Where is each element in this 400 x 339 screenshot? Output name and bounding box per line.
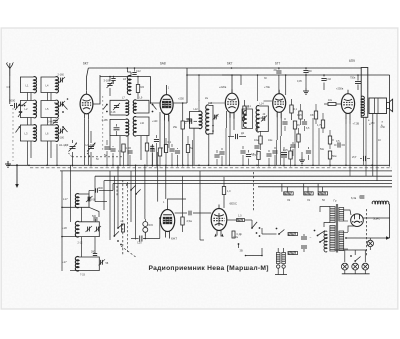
label 150: [371, 122, 376, 125]
wire rect top: [344, 210, 355, 249]
wire stub x319: [318, 128, 320, 165]
wire lamps frame: [345, 250, 366, 262]
svg-text:L6: L6: [123, 77, 127, 81]
svg-text:С20: С20: [137, 242, 142, 245]
svg-text:0,02: 0,02: [326, 78, 331, 81]
label 6Е5С V7: [230, 202, 238, 206]
tank 3 loop: [70, 257, 99, 271]
label 2,2м: [233, 236, 238, 239]
ground mid: [299, 152, 305, 163]
svg-text:4300: 4300: [98, 187, 104, 190]
osc tank L8: [102, 119, 129, 136]
svg-text:750в: 750в: [350, 77, 356, 80]
svg-text:+220в: +220в: [219, 85, 227, 89]
tube V1 6К7: [80, 90, 93, 120]
label И.Р: [352, 155, 370, 161]
capacitor bus f: [240, 146, 245, 165]
resistor R2: [136, 77, 144, 100]
capacitor 500: [92, 215, 98, 222]
svg-text:6Ж7: 6Ж7: [171, 237, 177, 241]
capacitor row l: [154, 135, 159, 167]
svg-text:3-18: 3-18: [111, 111, 116, 114]
wire IF2 drop: [257, 122, 259, 131]
bus line 3: [104, 180, 392, 182]
resistor R17 dark: [232, 231, 243, 238]
switch link dashed: [122, 180, 124, 256]
wire right edge: [389, 75, 391, 167]
svg-text:+250в: +250в: [336, 87, 344, 91]
wire osc top y76.5: [100, 76, 151, 78]
capacitor C13: [185, 119, 197, 124]
tank L3: [20, 125, 36, 142]
label 6Ж7 V6: [171, 237, 177, 241]
resistor x323: [317, 113, 325, 133]
ground arrow left: [15, 164, 19, 188]
resistor grid V5: [324, 99, 341, 106]
label +120в: [152, 120, 158, 123]
trimmer 41-180: [57, 128, 66, 140]
bus line 4: [113, 183, 392, 185]
capacitor 4300: [89, 187, 113, 194]
svg-text:6Г7: 6Г7: [275, 62, 280, 66]
svg-text:+250: +250: [178, 97, 184, 101]
switch dots osc right: [152, 104, 157, 113]
resistor right V4 a: [290, 99, 298, 120]
capacitor bus g: [246, 150, 251, 165]
wire V1 cathode: [85, 119, 89, 165]
bus line b: [60, 170, 392, 172]
label Гр: [334, 199, 337, 203]
resistor 1,0 right V7: [227, 215, 252, 222]
svg-text:1,0: 1,0: [227, 190, 231, 193]
top line dots: [109, 67, 325, 77]
svg-text:5м: 5м: [104, 154, 107, 157]
wire tank links c1: [28, 93, 32, 126]
coil L18: [62, 221, 79, 237]
wire V4 pins: [277, 112, 281, 140]
svg-text:L17: L17: [63, 197, 68, 201]
tap winding left: [324, 231, 327, 252]
svg-text:L13: L13: [208, 102, 213, 105]
antenna W1: [6, 62, 13, 76]
capacitor mains a: [301, 234, 307, 239]
svg-text:6К7: 6К7: [83, 62, 89, 66]
switch link diag dashed: [121, 246, 137, 258]
svg-text:2м: 2м: [205, 97, 208, 100]
svg-text:3-185: 3-185: [102, 119, 109, 122]
dashed switch link left: [12, 108, 14, 161]
svg-text:6П9: 6П9: [349, 59, 355, 63]
label 1,0 b: [118, 150, 122, 153]
wire sw vert f: [144, 165, 146, 219]
svg-text:Н1-4ДФ: Н1-4ДФ: [59, 143, 68, 147]
title text: [149, 265, 269, 272]
label 7-33: [80, 274, 85, 277]
svg-text:260: 260: [91, 251, 96, 254]
svg-text:L18: L18: [62, 226, 67, 230]
wire osc drops: [110, 136, 141, 166]
label 6,3в: [351, 196, 364, 200]
svg-text:6,3в: 6,3в: [351, 196, 357, 200]
svg-text:41-180: 41-180: [57, 137, 65, 140]
wire drop h4: [307, 187, 309, 192]
resistor R5 right V3: [243, 100, 246, 120]
rectifier V8 5Ц4С: [351, 214, 364, 227]
label 2-12: [78, 242, 83, 245]
capacitor osc1 low: [114, 124, 120, 136]
osc tank L7: [110, 97, 129, 116]
svg-text:0,5: 0,5: [336, 140, 340, 143]
wire tank drops: [28, 141, 58, 165]
wire drop x200: [200, 171, 204, 240]
trimmer 3-180: [104, 77, 114, 97]
coil L6 osc: [123, 68, 131, 94]
wire V1 cathode drop: [84, 144, 86, 165]
capacitor bus e: [219, 148, 224, 165]
resistor x330b: [328, 151, 336, 167]
resistor x316: [310, 104, 318, 124]
label 10 right: [378, 139, 381, 142]
label а2: [382, 121, 384, 124]
wire V6 top: [163, 199, 186, 206]
capacitor V4 d: [290, 142, 295, 156]
label 0,5д: [215, 115, 219, 118]
label 6К7 V1: [83, 62, 89, 66]
svg-text:5Ц4С: 5Ц4С: [373, 217, 380, 221]
resistor mains dark 2: [288, 251, 298, 254]
capacitor row i: [175, 148, 180, 167]
capacitor row h: [168, 141, 175, 167]
resistor row k: [186, 136, 193, 167]
label НЧ: [54, 102, 58, 105]
wire row n: [192, 140, 194, 167]
wire 4300 drop: [113, 184, 117, 197]
resistor 0,5: [253, 152, 261, 167]
label 0,5 c: [251, 153, 255, 156]
svg-text:3В: 3В: [240, 249, 243, 253]
resistor right V4 c: [297, 128, 300, 148]
wire sw vert d: [130, 171, 132, 222]
resistor 2,5м: [181, 176, 192, 232]
wire IF1 riser: [198, 74, 200, 100]
wire V1 grid cap: [87, 68, 89, 90]
trimmer mid col2: [59, 101, 66, 107]
capacitor C20 top: [274, 67, 282, 94]
label 5Ц4С: [373, 217, 380, 221]
svg-text:С50: С50: [381, 126, 386, 129]
output transformer T2: [345, 68, 368, 177]
resistor x330a: [328, 130, 334, 149]
svg-text:7-33: 7-33: [80, 274, 85, 277]
wire drop x62: [61, 171, 63, 271]
label 40: [263, 113, 266, 116]
svg-text:2-160: 2-160: [58, 74, 65, 77]
resistor IF2 low: [254, 131, 262, 150]
tube V7 6Е5С: [211, 205, 227, 237]
svg-text:Гр: Гр: [334, 199, 337, 203]
svg-text:6К7: 6К7: [227, 62, 233, 66]
svg-text:R2: R2: [141, 85, 145, 89]
tube V5 6П9: [341, 90, 354, 120]
tank L5: [41, 100, 58, 118]
coil L15 box: [242, 106, 253, 129]
svg-text:С50: С50: [310, 114, 315, 117]
wire V1 plate: [93, 75, 100, 104]
wire transformer top: [320, 207, 330, 228]
wire V2 left: [150, 77, 160, 104]
filament wire arrow: [345, 236, 390, 239]
label 30: [264, 77, 267, 80]
wire sw vert e: [135, 165, 137, 239]
bus line 2: [95, 175, 392, 177]
capacitor C11: [111, 77, 115, 85]
dashed link V7: [253, 172, 255, 212]
wire IF1 drops: [194, 100, 209, 165]
capacitor x339: [334, 140, 345, 148]
wire drop h5: [317, 184, 319, 192]
wire stub x346: [345, 124, 347, 165]
label 10м2: [268, 139, 273, 142]
label С50 right: [381, 126, 386, 129]
switch mains: [276, 228, 285, 235]
label +70в: [264, 85, 270, 89]
pilot lamp Л4: [341, 263, 348, 270]
switch contacts left edge: [15, 104, 20, 133]
resistor row j: [162, 138, 168, 167]
resistor sw dark: [121, 221, 125, 232]
wire stub x313: [312, 118, 314, 165]
wire tank1 down: [82, 207, 100, 222]
capacitor mid e: [306, 147, 311, 160]
wire V2 plate right: [173, 102, 187, 104]
svg-text:100: 100: [308, 70, 313, 73]
svg-text:R15: R15: [149, 224, 154, 227]
svg-text:Д1: Д1: [241, 131, 245, 135]
power plug X1: [275, 248, 287, 275]
tank 1 loop: [61, 194, 89, 208]
svg-text:1,0: 1,0: [238, 215, 242, 218]
svg-text:2,5м: 2,5м: [187, 219, 193, 223]
wire antenna down: [7, 76, 11, 104]
svg-text:L12: L12: [194, 108, 199, 111]
wire rect right: [363, 204, 390, 238]
svg-text:L14: L14: [260, 103, 265, 106]
tank L2: [20, 100, 36, 118]
capacitor 0,05 top: [303, 67, 312, 94]
ground left edge: [5, 161, 11, 167]
wire lamps bottom: [342, 270, 370, 274]
svg-text:100: 100: [259, 117, 264, 120]
capacitor x304 mid: [297, 114, 307, 131]
tank 2 loop: [61, 222, 99, 238]
switch contacts mid: [62, 98, 68, 132]
wire IF2 riser: [257, 74, 259, 101]
svg-text:10м: 10м: [254, 139, 259, 142]
tank L6b: [41, 125, 58, 142]
svg-text:2-12: 2-12: [78, 242, 83, 245]
speaker Гр1: [369, 98, 393, 114]
jack R15: [143, 219, 154, 236]
resistor 50 feed: [318, 192, 328, 202]
wire grid bus y68: [88, 67, 345, 69]
switch link dashed 2: [127, 182, 129, 252]
wire mains connect: [262, 228, 277, 234]
trimmer 3-60: [48, 118, 59, 124]
resistor above V7: [222, 177, 231, 208]
capacitor mid b: [272, 147, 277, 167]
resistor mains dark 1: [288, 232, 298, 235]
svg-text:С15: С15: [297, 114, 302, 117]
osc tank L10: [133, 117, 149, 136]
resistor right V4 b: [293, 121, 296, 140]
coil L19: [62, 257, 79, 271]
wire V3 grid link: [209, 102, 225, 104]
coil L17: [63, 194, 79, 208]
tank L1: [20, 77, 36, 93]
resistor R3 below V2: [178, 97, 184, 167]
resistor row e: [145, 135, 148, 167]
label 0,1 V3: [248, 105, 252, 108]
switch wipers bottom: [113, 224, 122, 245]
resistor mid d: [289, 147, 292, 167]
wire V3 pins: [227, 111, 235, 136]
switch V7 right: [251, 220, 260, 237]
capacitor bus d: [214, 150, 219, 165]
svg-text:2,2м: 2,2м: [233, 236, 238, 239]
label 6К7 V3: [227, 62, 233, 66]
IF1 tank L12: [189, 108, 202, 129]
label 100: [259, 117, 264, 120]
svg-text:5000: 5000: [9, 99, 16, 103]
switch wiper input: [18, 102, 27, 117]
switch wipers top: [126, 184, 140, 195]
label R9: [297, 124, 301, 127]
wire stub x350: [349, 124, 351, 176]
svg-text:5м: 5м: [190, 147, 193, 150]
resistor Л2 feed: [284, 192, 294, 202]
label 6,5: [306, 127, 310, 130]
wire sw vert c: [117, 165, 119, 228]
trimmer osc1: [111, 103, 121, 114]
tank L4: [41, 77, 58, 93]
pilot lamp Л6: [362, 263, 369, 270]
wire V2 pins: [160, 112, 169, 152]
wire antenna tap: [15, 105, 25, 107]
primary winding lower: [330, 226, 335, 252]
IF1 tank L13: [206, 102, 214, 134]
label 0,05: [297, 80, 302, 83]
secondary winding lower: [339, 231, 344, 251]
power transformer core: [336, 204, 337, 253]
svg-text:6А8: 6А8: [160, 62, 166, 66]
svg-text:L17: L17: [62, 260, 67, 264]
wire drop h3: [303, 184, 305, 192]
wire tank2 down: [82, 237, 96, 257]
wire drop h6: [322, 187, 324, 192]
dashed link lamps: [366, 209, 368, 257]
wire V4 drops: [277, 136, 281, 165]
tube V3 6К7: [225, 89, 238, 119]
trimmer 3-58: [86, 196, 96, 202]
trimmer tank2b: [95, 226, 102, 232]
wire V5 pins: [346, 118, 359, 126]
svg-text:50м: 50м: [332, 155, 337, 158]
capacitor row f: [150, 144, 155, 167]
primary winding upper: [330, 207, 335, 223]
svg-text:0,25: 0,25: [283, 149, 288, 152]
wire lamp row top: [335, 249, 367, 251]
capacitor above V5: [350, 74, 361, 90]
capacitor row d: [127, 147, 132, 167]
svg-text:R: R: [332, 139, 334, 142]
svg-text:0,1: 0,1: [168, 141, 172, 144]
wire V2 grid cap: [167, 85, 170, 91]
svg-text:И,Р: И,Р: [352, 155, 357, 159]
wire row m: [150, 145, 154, 167]
bus junction dots: [28, 165, 373, 167]
pilot lamp Л5: [352, 263, 359, 270]
svg-text:C1: C1: [7, 85, 11, 89]
bus dashed: [30, 167, 392, 169]
label 50в: [320, 148, 325, 151]
capacitor row a: [104, 140, 109, 167]
wire sw vert a: [109, 171, 111, 240]
wire speaker drops: [369, 114, 383, 181]
label 5000b: [96, 158, 99, 161]
trimmer IF2: [261, 116, 267, 122]
resistor row g: [158, 146, 161, 167]
gang link dashed: [69, 153, 123, 157]
wire V3 top loop: [222, 74, 241, 93]
wire sw vert h: [165, 165, 167, 199]
wire drop h2: [286, 187, 288, 192]
capacitor mid a: [266, 150, 271, 167]
wire tank links c2: [48, 93, 52, 126]
capacitor mains b: [301, 246, 307, 252]
wire bottom link: [245, 248, 263, 256]
svg-text:~: ~: [310, 236, 312, 240]
label 2м: [205, 97, 208, 100]
label +250в V5: [336, 87, 344, 91]
svg-text:+120: +120: [152, 120, 158, 123]
voltage selector switches: [310, 230, 328, 243]
svg-text:+70в: +70в: [264, 85, 270, 89]
wire drop h1: [281, 184, 283, 192]
label С14: [186, 118, 191, 121]
trimmer tank2a: [86, 226, 93, 232]
capacitor IF2 low: [254, 146, 259, 155]
variable capacitor C2b: [86, 131, 96, 167]
svg-text:Радиоприемник Нева [Маршал-М]: Радиоприемник Нева [Маршал-М]: [149, 265, 269, 272]
resistor Л1 feed: [304, 192, 314, 202]
svg-text:НЧ: НЧ: [54, 102, 58, 105]
wire drop x70: [70, 165, 72, 222]
resistor x300: [299, 104, 302, 125]
svg-text:150: 150: [371, 122, 376, 125]
switch link osc dashed: [102, 96, 104, 150]
svg-text:1,0: 1,0: [126, 147, 130, 150]
secondary winding upper: [339, 208, 344, 222]
capacitor IF1a: [185, 119, 192, 125]
label 6П9 V5: [349, 59, 355, 63]
svg-text:500: 500: [92, 215, 97, 218]
label а1: [368, 119, 370, 122]
wire harness left: [95, 176, 107, 210]
label 25в: [173, 126, 178, 129]
wire sw vert g: [157, 152, 159, 202]
svg-text:Л2: Л2: [287, 198, 291, 202]
svg-text:Н1-4ДБ: Н1-4ДБ: [86, 143, 95, 147]
